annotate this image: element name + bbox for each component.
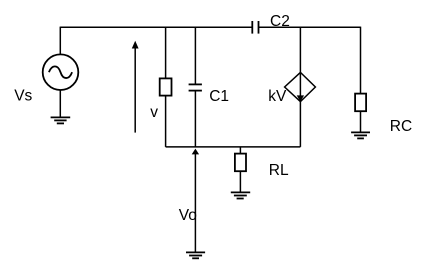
wire resistor branch top — [165, 27, 167, 78]
arrow v (voltage annotation) — [132, 41, 139, 133]
wire top rail left segment (Vs node to C2 left plate) — [60, 26, 252, 28]
capacitor C1 — [189, 84, 202, 90]
svg-text:Vo: Vo — [179, 207, 197, 224]
dependent source kV (diamond with downward current arrow) — [285, 72, 316, 101]
wire RL bottom lead — [239, 171, 241, 192]
wire bottom rail — [166, 146, 301, 148]
svg-text:RL: RL — [269, 162, 289, 179]
resistor RC — [355, 94, 366, 112]
resistor (unlabeled, box in v branch) — [160, 78, 172, 95]
wire resistor branch bottom — [165, 96, 167, 147]
wire RC bottom lead — [360, 111, 362, 132]
wire kV branch top — [299, 27, 301, 72]
svg-text:C1: C1 — [209, 88, 229, 105]
ground (below RL) — [231, 192, 250, 198]
wire C1 branch top — [194, 27, 196, 84]
resistor RL — [235, 154, 246, 172]
ground (below Vs) — [51, 117, 71, 123]
svg-text:Vs: Vs — [14, 88, 32, 105]
arrow Vo (output voltage annotation, points up at bottom rail) — [192, 149, 199, 253]
wire Vs top lead — [59, 27, 61, 55]
ground (below RC) — [351, 132, 370, 138]
ground (below Vo arrow) — [186, 252, 205, 258]
wire kV branch bottom — [299, 102, 301, 147]
wire C1 branch bottom — [194, 91, 196, 147]
svg-text:RC: RC — [390, 118, 412, 135]
wire Vs bottom lead — [59, 90, 61, 117]
svg-text:kV: kV — [268, 88, 287, 105]
wire top rail right segment (C2 right plate to RC branch corner) — [259, 26, 361, 28]
svg-text:v: v — [150, 104, 158, 121]
wire RL branch top — [239, 147, 241, 154]
wire RC branch vertical — [360, 27, 362, 94]
svg-text:C2: C2 — [270, 13, 290, 30]
source Vs (sinusoidal voltage source) — [43, 54, 79, 90]
capacitor C2 (series in top rail) — [252, 21, 258, 34]
